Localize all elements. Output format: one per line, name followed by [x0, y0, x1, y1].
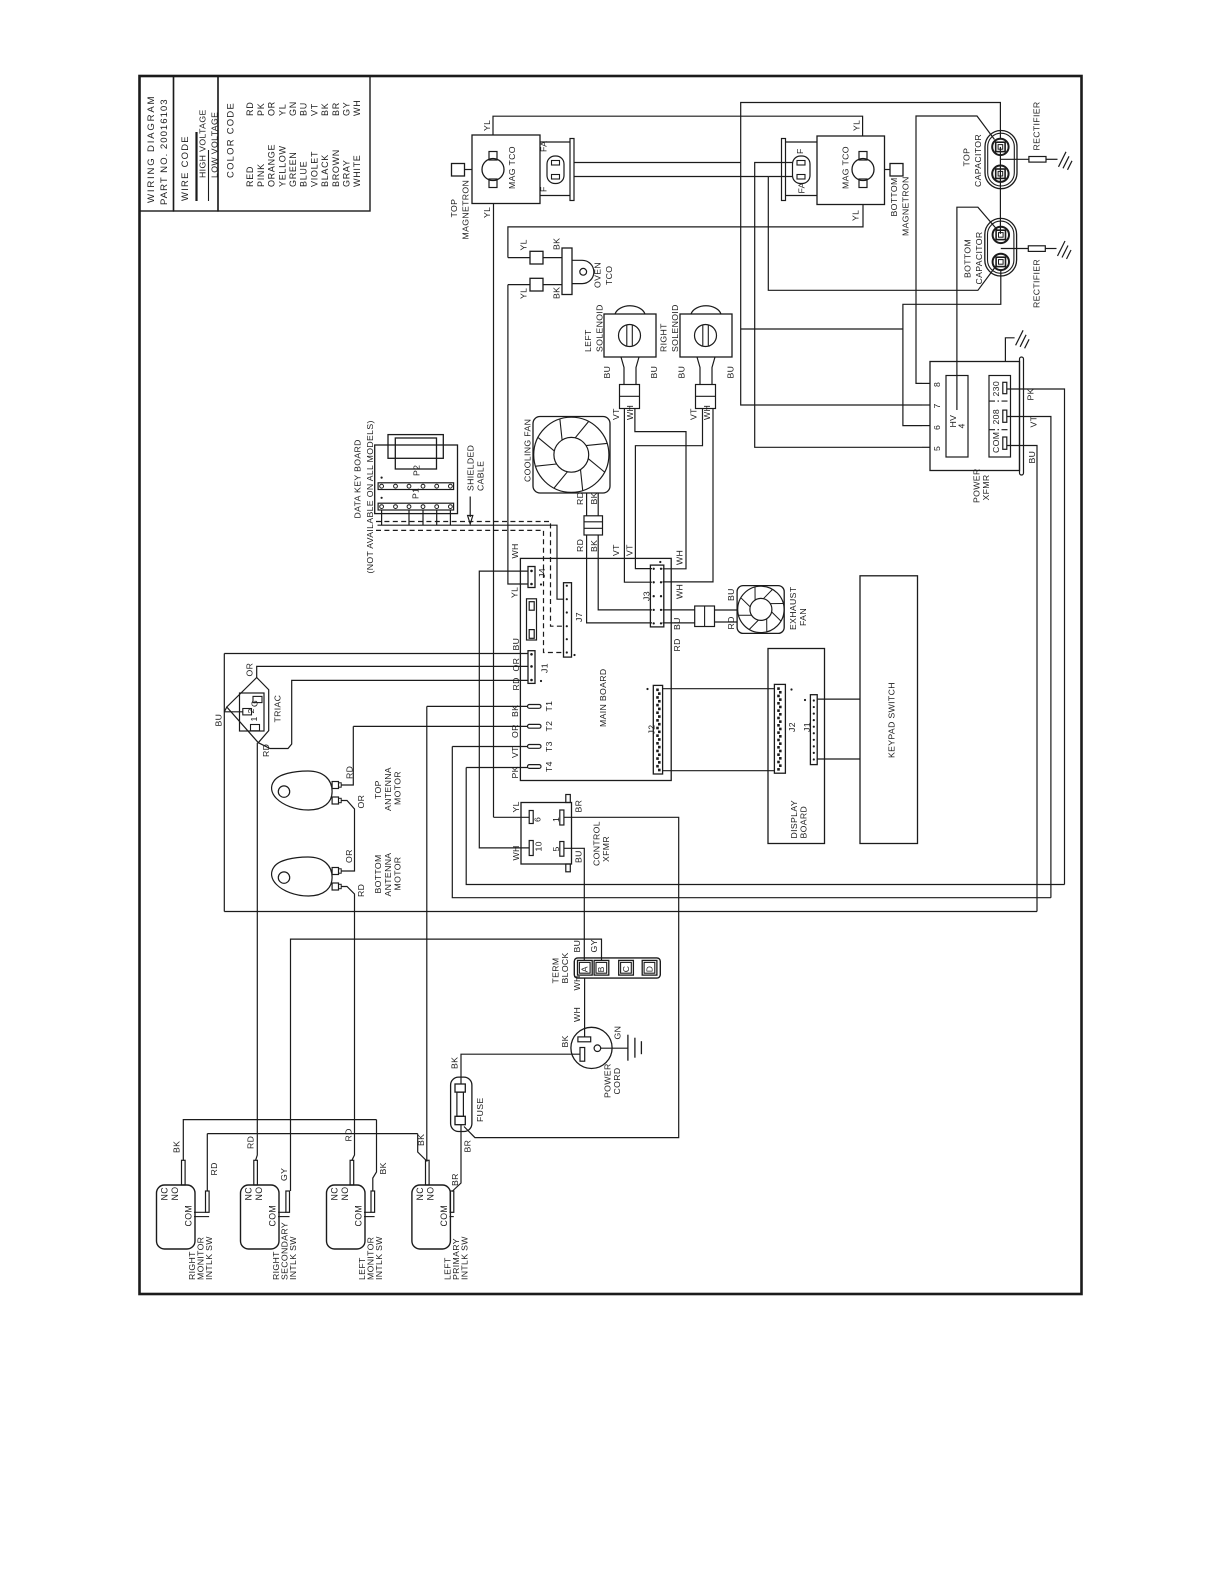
svg-text:5: 5 — [932, 446, 942, 451]
power xfmr secondary box — [989, 376, 1011, 458]
wire bottom mag YL to oven tco — [508, 205, 863, 258]
svg-text:BK: BK — [320, 103, 330, 116]
svg-text:LEFT: LEFT — [583, 329, 593, 352]
svg-text:J2: J2 — [647, 725, 657, 735]
svg-text:208: 208 — [991, 409, 1001, 425]
svg-text:BK: BK — [552, 238, 562, 250]
oven tco terminal 2 — [530, 278, 543, 291]
svg-text:RD: RD — [575, 539, 585, 552]
svg-text:RD: RD — [345, 766, 355, 779]
switch RIGHT NC stub — [182, 1160, 186, 1185]
svg-text:WH: WH — [702, 405, 712, 420]
right solenoid — [680, 314, 732, 357]
svg-text:GN: GN — [613, 1026, 623, 1040]
power xfmr core bar — [1020, 357, 1024, 475]
svg-text:WHITE: WHITE — [352, 155, 362, 188]
svg-text:VT: VT — [625, 544, 635, 556]
terminal T1 — [528, 705, 542, 709]
power cord circle — [571, 1027, 612, 1068]
wire triac bottom to SW2 NC — [256, 743, 258, 1161]
wire right solenoid WH to J3 pin2 right — [663, 409, 714, 582]
svg-text:RED: RED — [245, 166, 255, 187]
rectifier 1 — [1000, 158, 1029, 160]
svg-text:BOTTOM: BOTTOM — [373, 854, 383, 893]
wire pin6 riser to bottom cap T2 — [903, 270, 1001, 426]
wire line A top cap to pin7 riser — [741, 103, 1001, 163]
svg-text:T4: T4 — [544, 761, 554, 772]
connector J2 main — [653, 685, 662, 774]
svg-text:PINK: PINK — [256, 163, 266, 187]
svg-text:OR: OR — [356, 795, 366, 809]
top antenna motor — [272, 771, 333, 810]
svg-text:YELLOW: YELLOW — [277, 145, 287, 187]
svg-text:B: B — [596, 966, 606, 972]
rectifier 2 — [1001, 248, 1029, 250]
svg-text:HIGH VOLTAGE: HIGH VOLTAGE — [198, 109, 208, 178]
switch RIGHT COM riser — [206, 1191, 210, 1212]
svg-text:J2: J2 — [787, 722, 797, 732]
svg-text:OR: OR — [510, 724, 520, 738]
svg-text:1: 1 — [551, 817, 561, 822]
border frame — [140, 76, 1082, 1294]
svg-text:BR: BR — [463, 1140, 473, 1153]
svg-text:TOP: TOP — [962, 148, 972, 167]
svg-text:POWER: POWER — [972, 468, 982, 503]
rail 2 VT T3 to 208 — [452, 747, 1051, 898]
control xfmr winding bars — [529, 811, 533, 824]
connector J3 — [650, 565, 663, 627]
wire BR pin1 to fuse — [464, 817, 679, 1137]
svg-text:RECTIFIER: RECTIFIER — [1032, 101, 1042, 150]
svg-text:NO: NO — [254, 1187, 264, 1201]
main board fuse — [527, 599, 537, 640]
svg-text:SOLENOID: SOLENOID — [670, 304, 680, 352]
wire cooling fan RD to J3 pin5 left — [587, 535, 652, 623]
svg-text:BU: BU — [726, 588, 736, 601]
svg-text:BK: BK — [416, 1134, 426, 1146]
svg-text:OR: OR — [245, 663, 255, 677]
term block cell C — [619, 960, 634, 975]
ground 2 — [1058, 241, 1066, 256]
switch LEFT MONITOR box — [327, 1185, 366, 1249]
keypad switch outline — [860, 576, 918, 844]
svg-text:6: 6 — [533, 817, 543, 822]
power xfmr box — [930, 362, 1020, 471]
svg-text:COM: COM — [439, 1205, 449, 1227]
exhaust fan connector — [695, 606, 715, 627]
svg-text:EXHAUST: EXHAUST — [788, 586, 798, 630]
svg-text:RD: RD — [245, 102, 255, 116]
svg-text:BU: BU — [299, 102, 309, 116]
svg-text:NC: NC — [160, 1187, 170, 1201]
control xfmr bottom tab — [566, 864, 571, 872]
wire pin8 riser to top capacitor — [916, 116, 995, 383]
wire J2 main to J2 display top — [663, 688, 775, 690]
svg-text:MAG TCO: MAG TCO — [841, 146, 851, 189]
bottom magnetron right stub — [885, 169, 891, 171]
wire J4 pin1 WH to control xfmr pin10 — [479, 571, 529, 848]
svg-text:YL: YL — [482, 207, 492, 218]
term block cell A — [578, 960, 593, 975]
connector J1 display — [810, 695, 817, 765]
data key board P2 bar — [378, 483, 454, 490]
svg-text:BU: BU — [649, 366, 659, 379]
wire top magnetron F to line A — [574, 162, 741, 164]
svg-text:WH: WH — [572, 1007, 582, 1022]
fuse outline — [451, 1077, 472, 1131]
svg-text:VT: VT — [309, 103, 319, 116]
wire bridge pin7 to pin6 riser — [741, 328, 903, 330]
power xfmr pin stubs — [922, 382, 930, 384]
svg-text:GY: GY — [342, 102, 352, 116]
svg-text:WH: WH — [510, 543, 520, 558]
top magnetron antenna lines to flange — [540, 141, 570, 143]
svg-text:BR: BR — [574, 800, 584, 813]
svg-text:TCO: TCO — [604, 266, 614, 285]
svg-text:GN: GN — [288, 101, 298, 116]
top magnetron mag tco circle — [482, 159, 504, 181]
shielded cable solid line — [378, 525, 564, 599]
wire triac BU to J1 pin1 and down — [224, 653, 528, 655]
shielded cable dashed line 2 — [376, 530, 564, 652]
switch RIGHT NC stub — [254, 1160, 258, 1185]
wire top mag FA to bottom mag FA junction — [574, 176, 768, 178]
svg-text:PK: PK — [510, 766, 520, 778]
svg-text:OVEN: OVEN — [593, 262, 603, 288]
svg-text:VT: VT — [510, 746, 520, 758]
svg-text:BK: BK — [589, 540, 599, 552]
control xfmr box — [521, 803, 572, 865]
wire YL into pin6 — [494, 816, 530, 818]
svg-text:NC: NC — [244, 1187, 254, 1201]
svg-text:CONTROL: CONTROL — [592, 821, 602, 866]
svg-text:MOTOR: MOTOR — [393, 771, 403, 805]
svg-text:WH: WH — [675, 584, 685, 599]
svg-text:A: A — [580, 966, 590, 972]
svg-text:4: 4 — [957, 423, 967, 428]
svg-text:YL: YL — [851, 210, 861, 221]
rail 1 PK T4 to 230 — [466, 768, 1064, 885]
title block box 2 wire code — [174, 76, 219, 211]
svg-text:RD: RD — [246, 1136, 256, 1149]
main board outline — [520, 558, 671, 780]
ground 3 — [1016, 330, 1024, 345]
wire J2 main to J2 display bottom — [663, 770, 775, 772]
svg-text:MOTOR: MOTOR — [393, 857, 403, 891]
svg-text:RD: RD — [726, 616, 736, 629]
svg-text:INTLK SW: INTLK SW — [204, 1236, 214, 1280]
svg-text:T2: T2 — [544, 721, 554, 732]
data key board socket inner — [395, 438, 436, 469]
svg-text:INTLK SW: INTLK SW — [460, 1236, 470, 1280]
svg-text:COM: COM — [991, 432, 1001, 453]
bottom magnetron mag tco circle — [852, 159, 874, 181]
rail 3 BU triac to COM — [224, 911, 1037, 913]
svg-text:VT: VT — [611, 408, 621, 420]
svg-text:ANTENNA: ANTENNA — [383, 853, 393, 897]
switch LEFT PRIMARY box — [412, 1185, 451, 1249]
oven tco tab — [572, 260, 594, 283]
svg-text:DATA KEY BOARD: DATA KEY BOARD — [353, 439, 363, 518]
shielded cable dashed line 1 — [376, 522, 564, 627]
wire J1 display to keypad top — [817, 698, 860, 700]
wire cooling fan BK to J3 pin4 left — [598, 535, 652, 610]
svg-text:WH: WH — [572, 975, 582, 990]
top capacitor terminal 2 — [992, 166, 1008, 182]
bottom capacitor terminal 2 — [993, 254, 1009, 270]
terminal T4 — [528, 765, 542, 769]
wire FA down and right to bottom capacitor T2 — [768, 177, 996, 291]
switch RIGHT COM riser — [286, 1191, 290, 1212]
svg-text:GREEN: GREEN — [288, 151, 298, 187]
cooling fan wires — [586, 493, 588, 516]
wire left solenoid WH to J3 pin1 right — [635, 409, 686, 569]
svg-text:J1: J1 — [540, 663, 550, 673]
svg-text:T3: T3 — [544, 741, 554, 752]
low voltage sample line — [208, 150, 210, 201]
connector J2 display — [774, 684, 785, 773]
data key board pin wires to shielded cable — [381, 510, 383, 525]
svg-text:MAIN BOARD: MAIN BOARD — [598, 668, 608, 727]
svg-text:BU: BU — [602, 366, 612, 379]
svg-text:2: 2 — [246, 708, 256, 713]
svg-text:RD: RD — [261, 744, 271, 757]
wire T2 RD line — [353, 725, 527, 727]
cooling fan blades — [588, 459, 604, 472]
wire right solenoid VT to J3 pin1 left — [635, 409, 702, 569]
svg-text:NO: NO — [170, 1187, 180, 1201]
title block box 1 — [140, 76, 174, 211]
bottom capacitor terminal 1 — [993, 227, 1009, 243]
exhaust connector to fan wires — [715, 609, 738, 611]
bottom motor lug1 — [332, 868, 338, 875]
svg-text:YL: YL — [482, 120, 492, 131]
svg-text:FA: FA — [539, 141, 549, 152]
wire line A riser down to pin7 — [741, 163, 922, 406]
svg-text:8: 8 — [932, 382, 942, 387]
wire BU pin5 to term block A — [564, 848, 584, 960]
oven tco bar — [562, 248, 572, 295]
wire T3 OR line — [452, 746, 527, 748]
svg-text:FUSE: FUSE — [475, 1097, 485, 1122]
svg-text:NO: NO — [426, 1187, 436, 1201]
terminal T2 — [528, 724, 542, 728]
triac terminal 2 bar — [243, 709, 252, 715]
svg-text:RIGHT: RIGHT — [659, 323, 669, 352]
ground earth power cord — [627, 1035, 629, 1061]
svg-text:BK: BK — [589, 492, 599, 504]
svg-text:VT: VT — [689, 408, 699, 420]
svg-text:RD: RD — [344, 1128, 354, 1141]
svg-text:F: F — [795, 148, 805, 154]
wire GN to ground — [601, 1047, 628, 1049]
svg-text:RD: RD — [575, 492, 585, 505]
wire 208 to rail2 VT — [1007, 417, 1051, 898]
svg-text:TRIAC: TRIAC — [273, 695, 283, 723]
term block cell B — [594, 960, 609, 975]
power xfmr secondary slots — [1003, 382, 1007, 393]
data key board socket outer — [388, 435, 443, 459]
svg-text:XFMR: XFMR — [981, 474, 991, 500]
power xfmr HV box — [946, 376, 968, 458]
svg-text:BLACK: BLACK — [320, 154, 330, 187]
wire top cap T1 through to bottom cap T1 — [999, 147, 1001, 234]
svg-text:INTLK SW: INTLK SW — [374, 1236, 384, 1280]
cooling fan connector — [584, 516, 603, 535]
wire GY term block B to SW2 COM — [291, 939, 602, 1191]
svg-text:COLOR CODE: COLOR CODE — [224, 102, 235, 178]
svg-text:WH: WH — [625, 405, 635, 420]
svg-text:RD: RD — [356, 884, 366, 897]
svg-text:FAN: FAN — [798, 608, 808, 626]
triac body — [227, 678, 269, 743]
power cord top blade — [578, 1037, 591, 1042]
wire triac OR to J1 pin2 — [257, 666, 528, 677]
svg-text:BU: BU — [214, 714, 224, 727]
bottom magnetron flange bar — [782, 139, 786, 201]
fuse cartridge — [455, 1084, 465, 1092]
wire triac RD to J1 pin3 — [258, 680, 528, 748]
left solenoid — [604, 314, 656, 357]
wire 230 to rail1 PK — [1007, 389, 1065, 885]
svg-text:NO: NO — [340, 1187, 350, 1201]
shielded cable arrow — [469, 497, 471, 518]
svg-text:SOLENOID: SOLENOID — [595, 304, 605, 352]
svg-text:WH: WH — [675, 550, 685, 565]
wire H2 SW1 COM to SW4 NC — [207, 1133, 417, 1135]
top magnetron box — [472, 135, 540, 204]
connector J4 — [528, 567, 535, 588]
top magnetron filament — [547, 156, 564, 184]
svg-text:INTLK SW: INTLK SW — [288, 1236, 298, 1280]
svg-text:WH: WH — [352, 100, 362, 116]
svg-text:BK: BK — [560, 1035, 570, 1047]
svg-text:C: C — [621, 966, 631, 973]
svg-text:10: 10 — [534, 841, 544, 851]
svg-text:COOLING FAN: COOLING FAN — [523, 419, 533, 482]
wire oven tco T2 to J4 pin2 — [508, 285, 528, 584]
svg-text:MAGNETRON: MAGNETRON — [461, 180, 471, 240]
svg-text:NC: NC — [415, 1187, 425, 1201]
svg-text:BU: BU — [672, 617, 682, 630]
svg-text:BU: BU — [574, 850, 584, 863]
connector J1 — [528, 651, 535, 684]
svg-text:ORANGE: ORANGE — [267, 144, 277, 187]
svg-text:BROWN: BROWN — [331, 149, 341, 187]
svg-text:KEYPAD SWITCH: KEYPAD SWITCH — [887, 682, 897, 758]
svg-text:YL: YL — [277, 104, 287, 116]
svg-text:(NOT AVAILABLE ON ALL MODELS): (NOT AVAILABLE ON ALL MODELS) — [365, 420, 375, 573]
wire H1 SW1 NC to SW3 COM — [183, 1120, 376, 1161]
svg-text:TOP: TOP — [449, 199, 459, 218]
svg-text:GY: GY — [589, 939, 599, 952]
bottom motor lug2 — [332, 883, 338, 890]
term block outline — [574, 958, 660, 978]
wire J3 pin5 to exhaust connector RD — [663, 622, 695, 624]
ground 1 — [1059, 152, 1067, 167]
wire T4 PK line — [466, 767, 527, 769]
svg-text:YL: YL — [510, 587, 520, 598]
svg-text:YL: YL — [511, 801, 521, 812]
term block cell D — [642, 960, 657, 975]
svg-text:SHIELDED: SHIELDED — [466, 445, 476, 491]
top capacitor capsule — [985, 131, 1017, 189]
svg-text:GY: GY — [279, 1168, 289, 1181]
svg-text:CABLE: CABLE — [476, 461, 486, 491]
svg-text:FA: FA — [797, 182, 807, 193]
power xfmr ground wire — [1005, 338, 1014, 362]
svg-text:COM: COM — [354, 1205, 364, 1227]
bottom magnetron box — [817, 136, 885, 205]
svg-text:CAPACITOR: CAPACITOR — [973, 134, 983, 187]
svg-text:YL: YL — [519, 288, 529, 299]
top magnetron left stub — [465, 169, 473, 171]
wire T1 BK line — [427, 705, 528, 707]
svg-text:BOARD: BOARD — [799, 806, 809, 839]
triac terminal 1 bar — [251, 725, 260, 731]
svg-text:NC: NC — [330, 1187, 340, 1201]
svg-text:YL: YL — [519, 239, 529, 250]
wire RD bottom motor lug2 down to SW3 NC — [341, 887, 354, 1161]
title block box 3 color code — [218, 76, 370, 211]
svg-text:BR: BR — [331, 102, 341, 116]
svg-text:7: 7 — [932, 403, 942, 408]
oven tco terminal 1 — [530, 251, 543, 264]
svg-text:BK: BK — [510, 705, 520, 717]
svg-text:ANTENNA: ANTENNA — [383, 767, 393, 811]
svg-text:BU: BU — [726, 366, 736, 379]
svg-text:WH: WH — [511, 845, 521, 860]
svg-text:COM: COM — [268, 1205, 278, 1227]
bottom magnetron antenna lines to flange — [786, 141, 818, 143]
triac gate bar — [253, 696, 262, 702]
svg-text:PART NO. 20016103: PART NO. 20016103 — [159, 98, 170, 205]
svg-text:TERM: TERM — [551, 957, 561, 983]
svg-text:XFMR: XFMR — [601, 836, 611, 862]
terminal T3 — [528, 745, 542, 749]
svg-text:J7: J7 — [574, 612, 584, 622]
switch LEFT COM riser — [371, 1191, 375, 1212]
svg-text:TOP: TOP — [373, 780, 383, 799]
wire WH term block A to power cord — [584, 978, 586, 1037]
svg-text:BR: BR — [450, 1173, 460, 1186]
wire top mag YL down long to control xfmr pin6 — [493, 204, 495, 818]
switch LEFT NC stub — [426, 1160, 430, 1185]
wire bottom cap T1 chamfer to HV — [957, 207, 997, 410]
power cord ground pin — [594, 1045, 601, 1052]
svg-text:1: 1 — [249, 716, 259, 721]
display board outline — [768, 649, 825, 844]
svg-text:DISPLAY: DISPLAY — [789, 800, 799, 839]
svg-text:WIRING DIAGRAM: WIRING DIAGRAM — [146, 95, 157, 203]
svg-text:VT: VT — [611, 544, 621, 556]
svg-text:CAPACITOR: CAPACITOR — [974, 231, 984, 284]
wire COM to rail3 BU — [1007, 446, 1037, 912]
svg-text:CORD: CORD — [612, 1068, 622, 1095]
svg-text:6: 6 — [932, 425, 942, 430]
bottom magnetron filament — [793, 156, 811, 184]
svg-text:BK: BK — [552, 287, 562, 299]
wire fuse bottom BR down to SW4 COM — [452, 1125, 461, 1192]
high voltage sample line — [195, 132, 197, 201]
svg-text:OR: OR — [267, 101, 277, 116]
top capacitor terminal 1 — [992, 139, 1008, 155]
svg-text:BK: BK — [378, 1162, 388, 1174]
svg-text:BLOCK: BLOCK — [560, 952, 570, 983]
svg-text:PK: PK — [256, 103, 266, 116]
cooling fan body — [533, 417, 610, 494]
svg-text:VT: VT — [1029, 415, 1039, 427]
